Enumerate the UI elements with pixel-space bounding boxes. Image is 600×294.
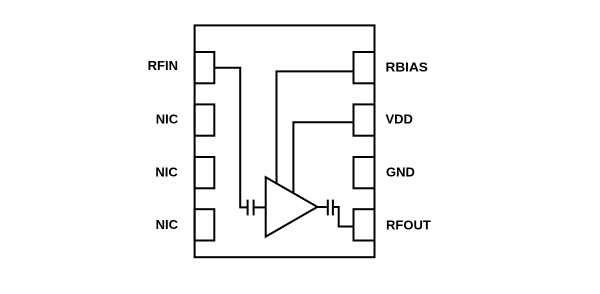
svg-text:NIC: NIC <box>156 217 179 232</box>
svg-text:VDD: VDD <box>386 112 413 127</box>
svg-text:RFIN: RFIN <box>148 58 178 73</box>
svg-text:RBIAS: RBIAS <box>386 59 429 74</box>
svg-text:NIC: NIC <box>156 112 179 127</box>
svg-text:GND: GND <box>386 165 415 180</box>
svg-text:RFOUT: RFOUT <box>386 218 431 233</box>
svg-text:NIC: NIC <box>155 165 178 180</box>
